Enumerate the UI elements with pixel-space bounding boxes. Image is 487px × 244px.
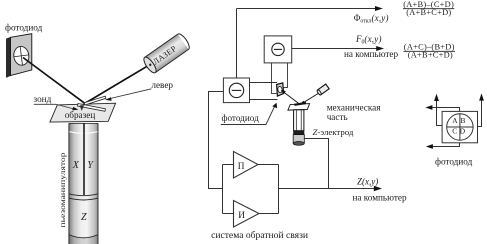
svg-text:F0(x,y): F0(x,y) xyxy=(355,34,382,46)
cantilever lever xyxy=(84,96,106,105)
wire Z-electrode to output xyxy=(304,139,328,189)
svg-text:П: П xyxy=(238,162,245,172)
slab on sample xyxy=(78,104,106,112)
svg-text:фотодиод: фотодиод xyxy=(5,23,43,33)
tube XY center divider xyxy=(83,123,85,195)
tube bottom cap xyxy=(69,235,98,244)
tube top highlight xyxy=(69,132,97,134)
svg-text:система обратной связи: система обратной связи xyxy=(211,230,308,241)
svg-text:D: D xyxy=(460,126,466,135)
top subtractor box xyxy=(264,36,292,63)
svg-text:часть: часть xyxy=(327,112,348,122)
laser beam to photodiode xyxy=(23,58,85,104)
F0 output line xyxy=(292,48,380,50)
tube section divider xyxy=(69,194,98,196)
Z-electrode bottom cap xyxy=(293,142,304,146)
photodiode plate side face xyxy=(6,37,10,77)
P amplifier triangle xyxy=(234,152,259,179)
wire up-arrow A xyxy=(437,98,443,126)
Z output line xyxy=(279,188,378,190)
svg-text:Z(x,y): Z(x,y) xyxy=(357,176,378,186)
svg-text:X: X xyxy=(72,160,80,171)
svg-text:образец: образец xyxy=(65,110,96,120)
svg-text:Z: Z xyxy=(81,212,87,223)
svg-text:фотодиод: фотодиод xyxy=(222,113,260,123)
svg-text:Φоткл(x,y): Φоткл(x,y) xyxy=(354,13,389,25)
svg-text:A: A xyxy=(452,116,458,125)
amplifier outputs join xyxy=(258,164,279,166)
svg-text:(A+B+C+D): (A+B+C+D) xyxy=(406,8,451,17)
svg-text:пьезоманипулятор: пьезоманипулятор xyxy=(58,152,67,227)
svg-text:Z-электрод: Z-электрод xyxy=(313,127,354,137)
wire from left subtractor up xyxy=(236,9,238,79)
probe tip xyxy=(80,105,85,111)
svg-text:B: B xyxy=(461,116,466,125)
quadrant front square xyxy=(442,111,477,142)
left subtractor box xyxy=(223,78,249,103)
mini sample xyxy=(288,104,310,111)
wire left box to feedback xyxy=(209,92,224,189)
svg-text:фотодиод: фотодиод xyxy=(435,157,473,167)
svg-text:механическая: механическая xyxy=(327,103,382,113)
svg-text:на компьютер: на компьютер xyxy=(353,192,407,202)
svg-text:на компьютер: на компьютер xyxy=(344,49,398,59)
wire up-arrow C xyxy=(478,97,482,127)
mini laser xyxy=(316,84,329,95)
mini lever xyxy=(294,103,306,105)
svg-text:И: И xyxy=(238,211,245,221)
photodiode quadrant ellipse xyxy=(13,46,30,66)
photodiode plate front face xyxy=(11,34,32,76)
sample (obrazets) plate xyxy=(50,103,116,122)
wire left-arrow D xyxy=(430,143,460,147)
svg-text:зонд: зонд xyxy=(34,94,52,104)
mini photodiode plate xyxy=(277,83,284,96)
wires subtractors to mini photodiode xyxy=(271,63,273,94)
svg-text:левер: левер xyxy=(151,80,173,90)
feedback input branch xyxy=(222,165,224,214)
laser beam from laser xyxy=(85,64,150,103)
Z-electrode dark band xyxy=(293,131,304,135)
wire left-arrow B xyxy=(429,108,460,112)
mini beam to photodiode xyxy=(283,92,300,105)
mini beam from laser xyxy=(302,93,319,103)
laser LAZER cylinder xyxy=(142,32,192,75)
Phi output line xyxy=(237,8,379,10)
quadrant circle xyxy=(447,114,473,140)
Z-electrode shaft xyxy=(294,110,304,131)
svg-text:C: C xyxy=(452,126,457,135)
I amplifier triangle xyxy=(234,201,260,228)
piezo tube body xyxy=(69,123,98,244)
svg-text:(A+B+C+D): (A+B+C+D) xyxy=(408,51,453,60)
Z-electrode lower band xyxy=(293,135,304,143)
